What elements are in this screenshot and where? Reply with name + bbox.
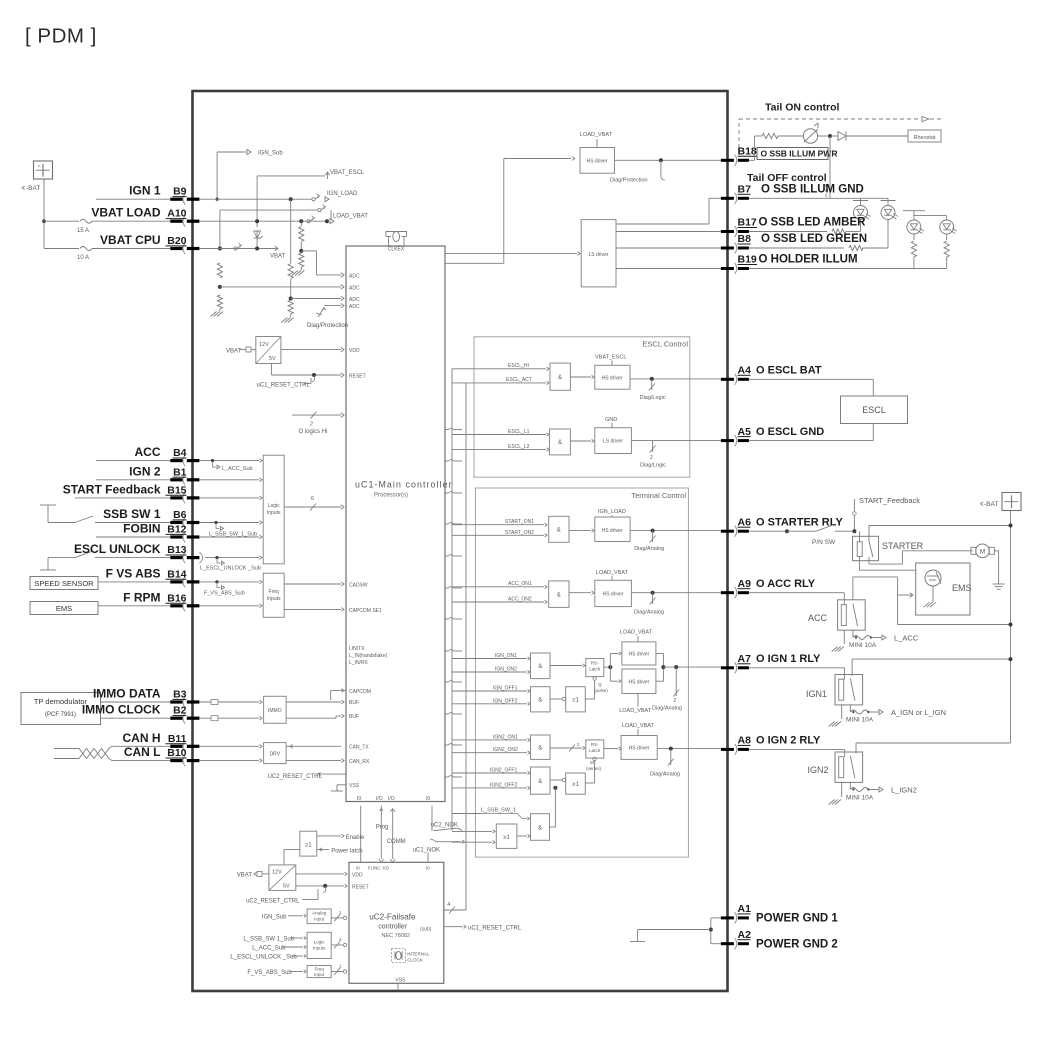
Diag Analog label ign2	[650, 772, 680, 778]
wire TP to B3	[101, 701, 171, 703]
wire uC2 VSS gnd	[397, 983, 399, 989]
motor M	[971, 544, 999, 584]
svg-text:Diag/Logic: Diag/Logic	[640, 463, 666, 469]
svg-text:ESCL_ACT: ESCL_ACT	[506, 377, 532, 383]
svg-text:Latch: Latch	[589, 748, 601, 753]
wire IMMO to BUF2	[286, 714, 344, 718]
wire ssb or in1	[452, 830, 495, 833]
Diag Analog label acc	[634, 610, 664, 616]
svg-text:B15: B15	[167, 484, 186, 496]
svg-text:-BAT: -BAT	[984, 501, 998, 508]
svg-text:B11: B11	[168, 733, 187, 745]
svg-text:Freq: Freq	[269, 589, 280, 595]
svg-text:I0: I0	[426, 866, 430, 871]
svg-text:Diag/Analog: Diag/Analog	[634, 546, 664, 552]
regulator 12V 5V uC1	[256, 337, 281, 364]
svg-text:VBAT: VBAT	[270, 254, 286, 260]
svg-text:IGN_OFF1: IGN_OFF1	[493, 686, 518, 692]
svg-text:&: &	[538, 779, 542, 785]
node A10 j2	[299, 219, 303, 223]
node battery-A10 junction	[42, 219, 46, 223]
svg-text:ESCL_L2: ESCL_L2	[508, 444, 530, 450]
wire speed sensor to B14	[98, 581, 170, 583]
svg-text:CAN H: CAN H	[123, 731, 161, 745]
svg-text:B2: B2	[173, 705, 187, 717]
flag L_ACC	[871, 634, 919, 643]
Tail ON control label	[765, 102, 840, 114]
wire starter to battery	[869, 524, 1013, 528]
svg-text:I/O: I/O	[376, 796, 383, 802]
crystal CLKEX	[386, 232, 407, 253]
svg-text:HS driver: HS driver	[603, 592, 624, 598]
svg-text:VBAT_ESCL: VBAT_ESCL	[595, 355, 626, 361]
svg-text:uC1_RESET_CTRL: uC1_RESET_CTRL	[257, 383, 311, 389]
HS driver escl block	[595, 365, 630, 389]
svg-text:O ACC RLY: O ACC RLY	[756, 578, 816, 590]
led holder 2	[940, 220, 957, 234]
fuse MINI 10A ign1	[846, 705, 874, 724]
wire uC1-uC2 prog	[376, 806, 389, 863]
pin A8 O IGN 2 RLY	[721, 735, 821, 755]
svg-text:IGN2: IGN2	[807, 765, 828, 775]
svg-text:Diag/Analog: Diag/Analog	[634, 610, 664, 616]
svg-text:Inputs: Inputs	[267, 596, 281, 602]
RS2 sub label	[586, 760, 602, 771]
pin B1 IGN 2	[129, 464, 199, 485]
svg-text:&: &	[538, 826, 542, 832]
VBAT label uC2 reg	[237, 871, 269, 878]
gate AND ign on	[531, 653, 551, 679]
svg-text:Diag/Logic: Diag/Logic	[640, 395, 666, 401]
switch sym IGN_LOAD	[312, 191, 358, 202]
svg-text:B12: B12	[167, 524, 186, 536]
ground IGN1 relay	[829, 705, 842, 727]
svg-text:IGN_ON2: IGN_ON2	[495, 667, 517, 673]
svg-text:LOAD_VBAT: LOAD_VBAT	[333, 214, 368, 220]
svg-text:uC1-Main controller: uC1-Main controller	[355, 480, 453, 490]
svg-text:B4: B4	[173, 447, 187, 459]
wire EMS to B16	[98, 605, 170, 607]
svg-text:L_ESCL_UNLOCK _Sub: L_ESCL_UNLOCK _Sub	[230, 954, 297, 960]
svg-text:VSS: VSS	[349, 783, 360, 789]
node B20 j0	[218, 247, 222, 251]
svg-text:controller: controller	[378, 924, 407, 931]
gate OR enable	[300, 831, 317, 856]
relay IGN2	[807, 752, 862, 782]
svg-text:Diag/Protection: Diag/Protection	[610, 178, 648, 184]
svg-text:VBAT_ESCL: VBAT_ESCL	[330, 170, 365, 176]
wire ADC3	[291, 296, 344, 300]
flag L_SSB_SW_1_Sub	[209, 521, 257, 538]
wire EMS to battery bus	[898, 595, 1013, 627]
gate OR ign2 off	[566, 773, 586, 794]
HS driver ign1 b	[622, 669, 656, 694]
pin A5 O ESCL GND	[721, 426, 824, 446]
flag L_ACC_Sub	[211, 459, 253, 472]
PIN SW contact	[812, 525, 856, 546]
START_Feedback flag	[853, 496, 921, 531]
svg-text:F VS ABS: F VS ABS	[106, 566, 161, 580]
svg-text:Rheostat: Rheostat	[913, 135, 935, 141]
svg-text:START_Feedback: START_Feedback	[859, 496, 920, 505]
wire ESCL_HI	[452, 363, 549, 370]
svg-text:O SSB LED GREEN: O SSB LED GREEN	[761, 233, 867, 245]
svg-text:IMMO CLOCK: IMMO CLOCK	[82, 703, 161, 717]
svg-text:L_IN/RX: L_IN/RX	[349, 660, 369, 666]
svg-text:(pulse): (pulse)	[594, 688, 608, 693]
svg-text:BUF: BUF	[349, 714, 359, 720]
svg-text:IGN_Sub: IGN_Sub	[262, 914, 287, 920]
svg-text:B3: B3	[173, 689, 187, 701]
svg-text:Inputs: Inputs	[267, 510, 281, 516]
resistor R 301b	[299, 253, 304, 267]
wire ign1 drivers join	[656, 654, 666, 682]
svg-text:LOAD_VBAT: LOAD_VBAT	[580, 132, 613, 138]
dashed Tail ON wire	[739, 117, 942, 149]
wire uC2 reset ctrl out	[444, 925, 522, 931]
wire and2off to or	[550, 778, 566, 781]
svg-text:I/O: I/O	[388, 796, 395, 802]
wire uC1 to LS driver	[445, 252, 580, 256]
wire A4 to ESCL	[749, 379, 873, 396]
LOAD_VBAT label ign2	[622, 723, 655, 736]
svg-text:O SSB ILLUM GND: O SSB ILLUM GND	[761, 184, 864, 196]
svg-text:B13: B13	[167, 544, 186, 556]
svg-text:P/N SW: P/N SW	[812, 539, 836, 546]
switch uC2_NOK	[431, 806, 462, 831]
wire B9 internal	[199, 198, 312, 200]
svg-text:Power latch: Power latch	[331, 849, 362, 855]
wire gate to HS acc	[569, 591, 594, 594]
wire VBAT CPU feed	[44, 248, 79, 250]
svg-text:EMS: EMS	[952, 583, 972, 593]
wire B4 to logic	[199, 459, 262, 463]
wire A6 line	[749, 529, 816, 533]
svg-text:&: &	[558, 440, 562, 446]
svg-text:(sub): (sub)	[420, 927, 432, 933]
svg-text:HS driver: HS driver	[628, 680, 649, 686]
svg-text:O logics Hi: O logics Hi	[299, 429, 328, 435]
svg-text:2: 2	[310, 422, 313, 428]
svg-text:IGN1: IGN1	[806, 689, 827, 699]
uC2 top pin labels	[356, 866, 430, 871]
svg-text:O SSB ILLUM PWR: O SSB ILLUM PWR	[761, 149, 838, 159]
svg-text:Diag/Analog: Diag/Analog	[650, 772, 680, 778]
wire B12 to logic	[199, 535, 262, 539]
resistor illum	[762, 133, 803, 138]
node B9-IGNsub	[216, 198, 219, 201]
svg-text:≥1: ≥1	[305, 843, 312, 849]
svg-text:L_IGN2: L_IGN2	[891, 786, 917, 795]
resistor R 301a	[299, 221, 304, 241]
gate AND ign2 on	[531, 735, 551, 759]
pin B18 O SSB ILLUM PWR	[721, 146, 838, 166]
wire ADC2	[220, 285, 344, 289]
svg-text:O ESCL BAT: O ESCL BAT	[756, 365, 822, 377]
flag F_VS_ABS_Sub uC2	[247, 970, 306, 976]
wire ACC_ON1	[452, 581, 547, 588]
wire CAPCOM step	[331, 689, 346, 700]
node ADC1 tap	[299, 242, 303, 253]
gate AND ign off	[531, 687, 551, 712]
svg-text:CLKEX: CLKEX	[388, 247, 405, 253]
wire A5 to ESCL	[749, 424, 873, 441]
wire FOBIN feed	[96, 536, 170, 538]
pin B15 START Feedback	[63, 482, 200, 503]
svg-text:LOAD_VBAT: LOAD_VBAT	[622, 723, 655, 729]
flag A_IGN or L_IGN	[868, 708, 946, 717]
node escl gnd diag	[650, 441, 656, 461]
svg-text:4: 4	[447, 902, 450, 908]
resistor holder 1	[911, 234, 916, 269]
svg-text:CAPCOM: CAPCOM	[349, 689, 371, 695]
svg-text:Input: Input	[314, 917, 325, 922]
svg-text:O SSB LED AMBER: O SSB LED AMBER	[759, 217, 867, 229]
wire B1 to logic	[199, 478, 262, 482]
TP demodulator box	[21, 693, 101, 725]
svg-text:START_ON1: START_ON1	[505, 519, 534, 525]
svg-text:B10: B10	[167, 747, 186, 759]
svg-text:Prog: Prog	[376, 825, 389, 831]
resistor R 290b	[288, 300, 293, 314]
relay ACC	[808, 600, 865, 630]
wire uC1-uC2 comm	[387, 809, 406, 863]
wire uC1-uC2 link1	[360, 806, 362, 863]
uC1 bottom pin labels	[357, 796, 430, 802]
svg-text:VBAT: VBAT	[237, 873, 253, 879]
IGN_LOAD label start	[598, 509, 626, 517]
svg-text:BUF: BUF	[349, 700, 359, 706]
svg-text:LS driver: LS driver	[603, 439, 623, 445]
wire freq out CADSW	[284, 582, 344, 586]
svg-text:&: &	[557, 528, 561, 534]
svg-text:L_SSB_SW 1_Sub: L_SSB_SW 1_Sub	[243, 936, 294, 942]
ESCL box	[841, 396, 908, 424]
svg-text:ESCL Control: ESCL Control	[642, 340, 688, 349]
ground network2	[281, 314, 293, 323]
wire starter coil return	[860, 557, 916, 571]
svg-text:RESET: RESET	[352, 885, 369, 891]
wire escl bat out	[630, 378, 721, 380]
svg-text:Diag/Protection: Diag/Protection	[307, 323, 348, 329]
LOAD_VBAT label hs	[580, 132, 613, 148]
wire LS to B7	[616, 198, 721, 224]
svg-text:START Feedback: START Feedback	[63, 482, 161, 496]
svg-text:Tail ON control: Tail ON control	[765, 102, 840, 114]
svg-text:F RPM: F RPM	[123, 590, 160, 604]
gate AND acc	[549, 581, 569, 608]
HS driver starter	[595, 517, 630, 542]
node A10 j3	[325, 219, 329, 223]
resistor holder 2	[944, 234, 949, 269]
Freq Input block uC2	[307, 966, 331, 978]
Diag Protection label	[307, 323, 348, 329]
svg-text:SPEED SENSOR: SPEED SENSOR	[34, 579, 94, 588]
svg-text:ACC_ON2: ACC_ON2	[508, 597, 532, 603]
svg-text:VDD: VDD	[352, 873, 363, 879]
LOAD_VBAT label ign1	[620, 630, 653, 642]
svg-text:IGN 1: IGN 1	[129, 184, 161, 198]
svg-text:12V: 12V	[259, 342, 269, 348]
pin B12 FOBIN	[123, 522, 199, 543]
wire B20 internal	[199, 248, 273, 250]
svg-text:CLOCK: CLOCK	[407, 958, 423, 963]
ground IGN2 relay	[829, 782, 842, 804]
ground uC1 VSS	[331, 785, 346, 791]
Diag Protection label hs	[610, 178, 648, 184]
wire DRV CAN_TX	[286, 744, 341, 748]
L_SSB_SW_1 flag label	[452, 808, 530, 821]
svg-text:IGN2_OFF1: IGN2_OFF1	[490, 768, 517, 774]
svg-text:SSB SW 1: SSB SW 1	[103, 507, 161, 521]
gate AND ign2 off	[531, 767, 551, 794]
svg-text:MINI 10A: MINI 10A	[849, 642, 877, 649]
ground EMS	[924, 602, 936, 607]
wire escl gnd out	[631, 440, 721, 442]
wire logic2 out	[331, 937, 346, 949]
svg-text:CADSW: CADSW	[349, 583, 368, 589]
svg-text:F_VS_ABS_Sub: F_VS_ABS_Sub	[247, 970, 292, 976]
svg-text:M: M	[590, 760, 594, 765]
flag L_SSB_SW_1_Sub uC2	[243, 936, 306, 942]
svg-text:5V: 5V	[269, 356, 276, 362]
svg-text:I0: I0	[356, 866, 360, 871]
svg-text:EMS: EMS	[56, 604, 72, 613]
svg-text:L_IN(handshake): L_IN(handshake)	[349, 653, 388, 659]
flag L_ESCL_UNLOCK_Sub	[200, 556, 261, 572]
VBAT reg label	[226, 347, 256, 355]
gate OR ign off	[566, 687, 586, 712]
svg-text:A10: A10	[167, 208, 186, 220]
wire gate to LS escl	[570, 439, 594, 442]
wire B7 gnd rail	[749, 197, 888, 199]
title [ PDM ]	[25, 25, 97, 48]
wire B15 to logic	[199, 496, 262, 500]
pin B17 O SSB LED AMBER	[721, 217, 866, 237]
svg-text:A8: A8	[738, 735, 752, 747]
pin A10 VBAT LOAD	[91, 206, 199, 227]
Freq Inputs block	[263, 573, 284, 617]
wire START Feedback feed	[75, 497, 170, 499]
wire andoff to or	[550, 697, 566, 700]
wire VBAT_ESCL branch	[257, 170, 365, 227]
wire or input from reg	[284, 850, 300, 865]
EMS box left	[30, 602, 98, 615]
svg-text:HS driver: HS driver	[587, 159, 608, 165]
svg-text:Tail OFF control: Tail OFF control	[747, 172, 827, 184]
resistor R 290a	[288, 264, 293, 279]
wire uC2 VDD	[296, 872, 347, 875]
node A10 j1	[255, 219, 259, 223]
svg-text:ESCL_HI: ESCL_HI	[508, 363, 529, 369]
LOAD_VBAT label ign1 low	[619, 694, 652, 715]
svg-text:&: &	[538, 664, 542, 670]
svg-text:L_SSB_SW_1: L_SSB_SW_1	[481, 808, 516, 814]
svg-text:HS driver: HS driver	[602, 528, 623, 534]
svg-text:Q: Q	[598, 682, 602, 687]
svg-text:VDD: VDD	[349, 348, 360, 354]
wire ADC1 step	[301, 251, 344, 277]
pin B9 IGN 1	[129, 184, 199, 205]
gate AND escl lo	[550, 429, 571, 455]
gate AND ssb	[531, 814, 550, 841]
ground network3	[292, 267, 304, 276]
pin B11 CAN H	[123, 731, 200, 752]
uC1 right stubs	[445, 428, 462, 777]
wire B2 to IMMO	[199, 716, 262, 721]
svg-text:IGN_ON1: IGN_ON1	[495, 653, 517, 659]
svg-text:&: &	[557, 593, 561, 599]
wire lamp return to B7	[829, 136, 831, 198]
Diag Analog label start	[634, 546, 664, 552]
Logic Inputs block uC2	[307, 932, 331, 958]
svg-text:POWER GND 1: POWER GND 1	[756, 913, 838, 925]
node ADC2 tap	[218, 285, 222, 289]
uC2 title	[369, 913, 432, 940]
wire B16 to freq	[199, 604, 262, 608]
svg-text:VSS: VSS	[395, 978, 406, 984]
wire B19 holder rail	[749, 268, 947, 270]
bus 2 logics	[292, 412, 344, 435]
wire uC2 reset	[296, 884, 347, 893]
flag VBAT	[270, 246, 286, 259]
IMMO block	[264, 696, 287, 723]
svg-text:FUNC: FUNC	[368, 866, 381, 871]
svg-text:10 A: 10 A	[77, 255, 89, 261]
zener VBAT ESCL	[254, 231, 263, 249]
wire A8 to relay	[749, 749, 845, 757]
svg-text:[ PDM ]: [ PDM ]	[25, 25, 97, 48]
svg-text:IGN_LOAD: IGN_LOAD	[327, 191, 358, 197]
node starter diag	[650, 529, 656, 543]
svg-text:L_ESCL_UNLOCK _Sub: L_ESCL_UNLOCK _Sub	[200, 566, 261, 572]
wire IGN2_OFF1	[452, 768, 530, 775]
EMS key symbol	[925, 570, 941, 602]
wire ign2 out	[657, 747, 721, 766]
wire logic out bus	[284, 496, 344, 511]
pin A2 POWER GND 2	[721, 929, 838, 950]
uC2_RESET_CTRL out label	[268, 772, 346, 780]
svg-text:uC2-Failsafe: uC2-Failsafe	[369, 913, 416, 922]
ground motor	[993, 584, 1005, 589]
flag LOAD_VBAT top	[307, 214, 368, 224]
relay STARTER	[853, 526, 924, 561]
flag L_IGN2	[868, 786, 916, 795]
svg-text:-BAT: -BAT	[26, 185, 40, 192]
wire IGN_ON2	[452, 667, 530, 674]
svg-text:uC2_RESET_CTRL: uC2_RESET_CTRL	[246, 899, 300, 905]
Terminal Control box	[475, 488, 688, 857]
wire or2 to RS2	[585, 757, 596, 783]
wire gate to HS escl	[570, 375, 594, 378]
svg-text:Freq: Freq	[314, 967, 324, 972]
switch sym B20	[234, 243, 242, 250]
svg-text:IGN_Sub: IGN_Sub	[258, 151, 283, 157]
svg-text:ACC_ON1: ACC_ON1	[508, 581, 532, 587]
resistor B8 line	[749, 245, 888, 250]
holder led pair header	[903, 211, 947, 220]
svg-text:B16: B16	[167, 592, 186, 604]
svg-text:GND: GND	[605, 417, 617, 423]
switch SSB SW 1	[40, 505, 170, 523]
battery B+ symbol left	[22, 161, 53, 192]
wire IGN_OFF1	[452, 686, 530, 693]
svg-text:I/O: I/O	[383, 866, 390, 871]
node HS out diag	[659, 158, 665, 180]
node B9 mid	[289, 197, 293, 201]
fuse MINI 10A acc	[849, 630, 877, 649]
svg-text:B7: B7	[738, 184, 752, 196]
